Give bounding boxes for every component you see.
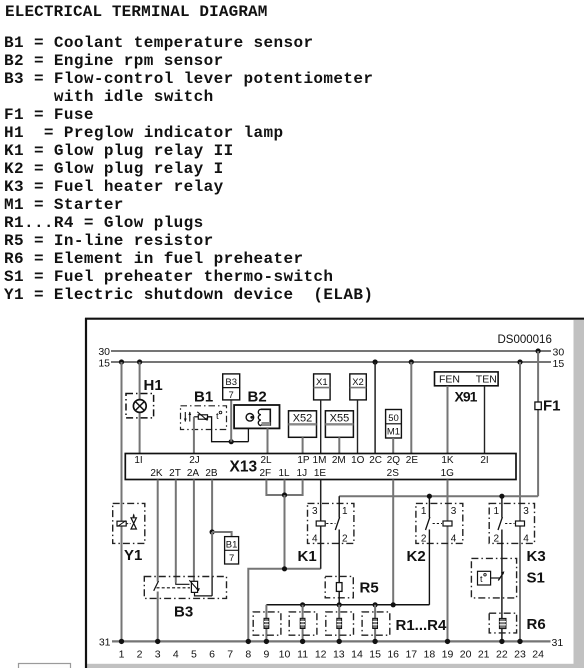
- svg-text:1O: 1O: [351, 455, 365, 466]
- svg-text:Y1: Y1: [124, 547, 142, 564]
- bottom-left form box: [19, 664, 71, 668]
- svg-text:1I: 1I: [134, 455, 142, 466]
- svg-text:2F: 2F: [259, 468, 271, 479]
- svg-text:4: 4: [173, 648, 179, 660]
- svg-text:1: 1: [119, 648, 125, 660]
- wire: junction to B1/7 connector: [212, 532, 232, 537]
- connector 50/M1 (starter terminal): [386, 410, 402, 439]
- svg-text:2A: 2A: [187, 468, 200, 479]
- wire: ground link horizontal to K1 coil and down to bus31: [248, 569, 320, 642]
- connector X52: [289, 411, 317, 438]
- wire: X13 pins 2F/1L/1J merge: [266, 480, 302, 496]
- wire: K1 contact from feed: [338, 496, 340, 517]
- svg-text:15: 15: [553, 358, 565, 370]
- relay K2 (glow plug relay I): [416, 503, 463, 544]
- node: 2F/1L/1J junction: [282, 492, 287, 497]
- scrollbar strip bottom: [87, 664, 584, 668]
- pin labels X13 bottom row: [150, 468, 454, 479]
- svg-text:2: 2: [493, 534, 499, 545]
- svg-text:2S: 2S: [387, 468, 400, 479]
- svg-text:5: 5: [191, 648, 197, 660]
- wire: bus15 to X13 pin 2E: [410, 362, 412, 454]
- svg-text:B3: B3: [174, 604, 193, 621]
- svg-text:17: 17: [405, 648, 417, 660]
- node: bus15 junctions: [119, 359, 523, 364]
- svg-text:4: 4: [523, 534, 529, 545]
- connector B3/7 (top): [223, 374, 240, 401]
- svg-text:1: 1: [421, 506, 427, 517]
- svg-text:X52: X52: [293, 412, 313, 424]
- node A (junction below B3/7): [229, 439, 234, 444]
- svg-text:H1: H1: [144, 377, 163, 394]
- svg-text:S1: S1: [527, 570, 545, 587]
- frame left border: [85, 318, 87, 668]
- svg-text:2T: 2T: [169, 468, 181, 479]
- wire: bus 30: [111, 350, 551, 352]
- node: bus31 junctions: [119, 639, 523, 644]
- svg-text:2L: 2L: [260, 455, 272, 466]
- svg-text:6: 6: [209, 648, 215, 660]
- glow plug R2: [289, 605, 317, 642]
- svg-text:1L: 1L: [278, 468, 290, 479]
- wire: B1 to X13 pin 2J: [193, 417, 195, 454]
- svg-text:TEN: TEN: [476, 374, 497, 386]
- wire: B3 switch to bus 31: [157, 592, 159, 642]
- wire: FEN to X13 pin 1K: [447, 386, 449, 454]
- wire: K3 contact from feed: [501, 496, 503, 517]
- svg-text:30: 30: [98, 346, 110, 358]
- svg-text:2J: 2J: [189, 455, 200, 466]
- wire: K1 coil down to ground link: [320, 526, 322, 569]
- wire: H1 lamp to X13 pin 1I: [139, 412, 141, 454]
- svg-text:7: 7: [229, 390, 234, 401]
- svg-text:R1...R4: R1...R4: [396, 617, 448, 634]
- svg-text:3: 3: [155, 648, 161, 660]
- svg-text:23: 23: [514, 648, 526, 660]
- wire: bus30 through F1 down to relay feed: [537, 351, 539, 496]
- svg-text:16: 16: [387, 648, 399, 660]
- relay K3 (fuel heater relay): [489, 503, 534, 544]
- frame top border: [85, 318, 584, 320]
- svg-text:F1: F1: [543, 398, 561, 415]
- glow plug R1: [253, 605, 281, 642]
- svg-text:7: 7: [227, 648, 233, 660]
- wire: K1 contact 2 down to R5: [338, 530, 340, 583]
- switch contact K2: [426, 517, 430, 530]
- svg-text:2M: 2M: [332, 455, 346, 466]
- svg-text:X2: X2: [352, 377, 364, 388]
- node: feed junction at K3: [499, 494, 504, 499]
- wire: X13 pin 1G down through K2 coil to bus31: [447, 480, 449, 642]
- svg-text:K1: K1: [298, 548, 317, 565]
- solenoid valve Y1 (electric shutdown device): [113, 503, 145, 543]
- sensor B2 (engine rpm sensor): [234, 405, 279, 428]
- svg-text:1E: 1E: [314, 468, 327, 479]
- svg-text:1G: 1G: [441, 468, 455, 479]
- svg-text:3: 3: [312, 506, 318, 517]
- svg-text:2: 2: [342, 534, 348, 545]
- svg-text:12: 12: [315, 648, 327, 660]
- wire: X13 pin 2A down to B3 potentiometer: [193, 480, 195, 582]
- svg-text:2B: 2B: [205, 468, 218, 479]
- fuse F1: [535, 402, 541, 410]
- svg-text:2Q: 2Q: [387, 455, 401, 466]
- svg-text:7: 7: [229, 553, 234, 564]
- svg-text:1M: 1M: [313, 455, 327, 466]
- node: ground link junction: [282, 566, 287, 571]
- glow plug R3: [326, 605, 354, 642]
- svg-text:50: 50: [388, 413, 399, 424]
- pin numbers 1-24: [119, 648, 545, 660]
- connector X55: [325, 411, 353, 438]
- wire: junction down to ground link: [284, 495, 286, 569]
- wire: bus15 down to K3 coil to bus31: [519, 362, 521, 641]
- wire: 2B junction down into B3: [211, 532, 213, 577]
- svg-text:2I: 2I: [480, 455, 488, 466]
- svg-text:M1: M1: [387, 427, 400, 438]
- wire: node A up into B2: [247, 428, 249, 441]
- svg-text:FEN: FEN: [439, 374, 460, 386]
- svg-text:2: 2: [137, 648, 143, 660]
- relay K1 (glow plug relay II): [308, 503, 354, 544]
- svg-text:1J: 1J: [297, 468, 308, 479]
- svg-text:K3: K3: [527, 548, 546, 565]
- svg-text:19: 19: [442, 648, 454, 660]
- svg-text:R6: R6: [527, 616, 546, 633]
- svg-text:10: 10: [279, 648, 291, 660]
- wire: glow plug top bus: [266, 604, 429, 606]
- node: feed junction at K2: [427, 494, 432, 499]
- wire: K2 contact 2 down to glow plug bus: [428, 530, 430, 605]
- svg-text:B1: B1: [194, 389, 213, 406]
- wire: TEN to X13 pin 2I: [484, 386, 486, 454]
- svg-text:X91: X91: [455, 388, 478, 404]
- scrollbar strip right: [574, 320, 584, 668]
- wire: bus15 to H1 lamp (pin 1I drop upper): [139, 362, 141, 400]
- wire: left rail bus15 to bus31 (through Y1): [121, 362, 123, 641]
- svg-text:t: t: [216, 411, 219, 422]
- svg-text:1: 1: [493, 506, 499, 517]
- wire: X1 to X13 pin 1M: [320, 400, 322, 454]
- connector X1: [314, 374, 331, 400]
- svg-text:X1: X1: [316, 377, 328, 388]
- svg-text:4: 4: [312, 534, 318, 545]
- heater element R6: [489, 613, 516, 633]
- svg-text:B2: B2: [248, 389, 267, 406]
- switch contact K3: [498, 517, 502, 530]
- wire: B1 output to node A: [208, 417, 249, 442]
- node: 2B branch junction: [210, 529, 215, 534]
- svg-text:9: 9: [263, 648, 269, 660]
- svg-text:15: 15: [98, 358, 110, 370]
- svg-text:1P: 1P: [297, 455, 310, 466]
- svg-text:22: 22: [496, 648, 508, 660]
- wire: bus 15: [111, 361, 551, 363]
- svg-text:3: 3: [451, 506, 457, 517]
- lamp H1: [126, 394, 154, 418]
- node: bus30-F1 junction: [536, 348, 541, 353]
- svg-text:B1: B1: [226, 540, 238, 551]
- node: glow plug bus junctions: [300, 602, 396, 607]
- svg-text:X13: X13: [230, 459, 258, 476]
- svg-text:DS000016: DS000016: [498, 334, 552, 346]
- wire: bus 31: [112, 640, 551, 642]
- wire: B3/7 box down to node A: [230, 400, 232, 442]
- resistor R5 (in-line resistor): [325, 576, 353, 597]
- svg-text:2C: 2C: [369, 455, 382, 466]
- connector X2: [350, 374, 367, 400]
- svg-text:31: 31: [552, 637, 564, 649]
- switch contact K1: [335, 517, 339, 530]
- thermo-switch S1 (fuel preheater thermo-switch): [471, 558, 516, 598]
- svg-text:B3: B3: [225, 377, 237, 388]
- wire: X13 pin 2B down to junction: [211, 480, 213, 533]
- svg-text:2K: 2K: [150, 468, 163, 479]
- sensor B1 (coolant temperature sensor): [181, 406, 227, 430]
- glow plug R4: [362, 605, 390, 642]
- svg-text:X55: X55: [330, 412, 350, 424]
- pin labels X13 top row: [134, 455, 488, 466]
- svg-text:K2: K2: [407, 548, 426, 565]
- svg-text:24: 24: [532, 648, 544, 660]
- svg-text:14: 14: [351, 648, 363, 660]
- svg-text:20: 20: [460, 648, 472, 660]
- connector B1/7 (below X13): [225, 537, 239, 564]
- svg-text:31: 31: [99, 637, 111, 649]
- svg-text:R5: R5: [360, 580, 379, 597]
- wire: X55 to X13 pin 2M: [338, 437, 340, 453]
- wire: X13 pin 2K down to B3 switch: [157, 480, 159, 582]
- svg-text:18: 18: [424, 648, 436, 660]
- wire: X13 pin 2T down to B3: [175, 480, 177, 583]
- svg-text:4: 4: [451, 534, 457, 545]
- svg-text:13: 13: [333, 648, 345, 660]
- wire: X13 pin 1E down to K1 coil: [320, 480, 322, 522]
- wire: bus15 to X13 pin 2C: [374, 362, 376, 454]
- wire: K3 contact 2 down through S1 to R6: [501, 530, 503, 642]
- wire: B2 to X13 pin 2L: [267, 428, 269, 453]
- connector X91 FEN/TEN: [435, 372, 499, 386]
- svg-text:8: 8: [245, 648, 251, 660]
- connector X13: [125, 454, 516, 480]
- wire: 50/M1 to X13 pin 2Q: [392, 438, 394, 454]
- svg-text:1K: 1K: [441, 455, 454, 466]
- wire: R5 down to glow plug bus: [338, 591, 340, 604]
- wire: relay feed line from F1 to K1/K2/K3 contacts: [339, 495, 538, 497]
- potentiometer B3 (flow-control lever with idle switch): [144, 577, 226, 599]
- svg-text:11: 11: [297, 648, 308, 660]
- wire: X52 to X13 pin 1P: [302, 437, 304, 453]
- wire: X13 pin 2S down to glow plug bus: [392, 480, 394, 605]
- svg-text:30: 30: [553, 347, 565, 359]
- svg-text:2: 2: [421, 534, 427, 545]
- wire: K2 contact from feed: [428, 496, 430, 517]
- svg-text:21: 21: [478, 648, 490, 660]
- wire: X2 to X13 pin 1O: [357, 400, 359, 454]
- svg-text:15: 15: [369, 648, 381, 660]
- svg-text:3: 3: [523, 506, 529, 517]
- svg-text:1: 1: [342, 506, 348, 517]
- svg-text:2E: 2E: [406, 455, 419, 466]
